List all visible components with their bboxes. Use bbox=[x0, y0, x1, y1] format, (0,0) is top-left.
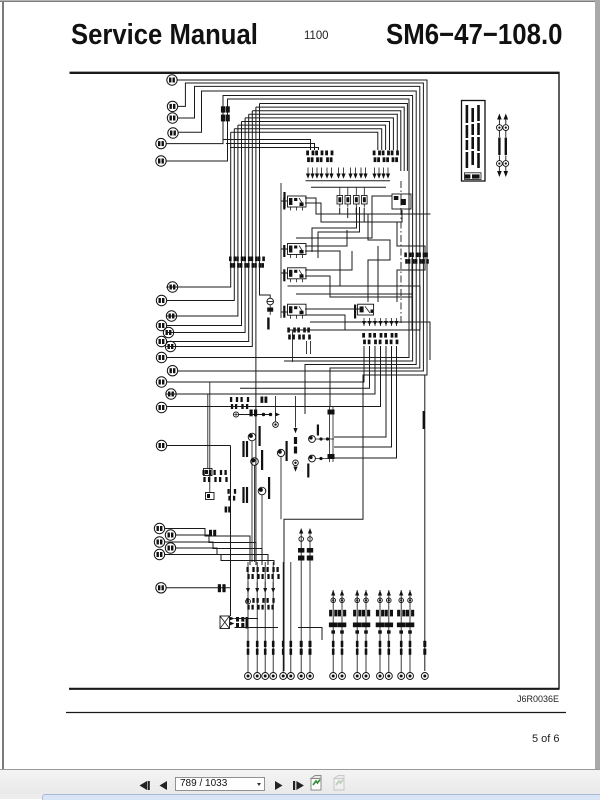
fuse F4 bbox=[362, 187, 368, 207]
relay block internal wire 9 bbox=[281, 248, 288, 250]
wire to turned light box 1 bbox=[207, 394, 209, 469]
junction dot 1 bbox=[262, 413, 265, 416]
wire ref column mid bbox=[295, 396, 297, 428]
relay block internal wire 16 bbox=[305, 308, 362, 310]
wire left-bundle 5 upper bbox=[245, 118, 393, 150]
relay main relay bbox=[288, 304, 307, 319]
terminal group 5 bbox=[353, 590, 370, 680]
wire left-bundle 7 upper bbox=[252, 111, 400, 171]
small label pair near junction bbox=[261, 397, 268, 403]
terminal group 4 bbox=[329, 590, 346, 680]
inline label on c20 wire bbox=[209, 530, 216, 537]
connector circle c16 bbox=[156, 377, 166, 387]
wire left-bundle 9 lower bbox=[260, 104, 271, 299]
component pair vertical bbox=[328, 407, 335, 462]
wire to seatbelt symbol bbox=[275, 396, 277, 422]
connector circle c10 bbox=[156, 320, 166, 330]
bus wire under diode row bbox=[306, 180, 391, 182]
bottom-left contact symbols bbox=[246, 582, 275, 593]
relay block internal wire 14 bbox=[305, 258, 412, 297]
wire 4WD out 3 bbox=[166, 346, 375, 394]
connector labels above diode row (right) bbox=[373, 151, 399, 163]
reference symbol column A bbox=[497, 114, 503, 178]
wire labels on left bundle bbox=[229, 257, 265, 268]
wire c20 lower bbox=[164, 529, 250, 566]
wire c25 branch bbox=[166, 587, 231, 589]
schematic frame right border bbox=[558, 72, 560, 689]
wire left-bundle 1 lower bbox=[166, 132, 230, 287]
wire lamp1 down bbox=[251, 441, 253, 562]
connector circle c14 bbox=[156, 352, 166, 362]
relay block internal wire 21 bbox=[288, 286, 421, 318]
junction dot backup 1 bbox=[319, 437, 322, 440]
junction dot 2 bbox=[269, 413, 272, 416]
connector circle c25 bbox=[156, 583, 166, 593]
wire junction vertical x231 bbox=[230, 446, 232, 617]
connector circle c24 bbox=[154, 549, 164, 559]
wire left-bundle 4 lower bbox=[166, 122, 241, 326]
wire h to diode col 3 bbox=[230, 148, 319, 151]
header title left bbox=[71, 19, 258, 52]
connector labels above diode row (left) bbox=[306, 151, 333, 163]
connector circle c15 bbox=[167, 366, 177, 376]
wire long vertical to terminal bbox=[424, 375, 426, 671]
label oil pressure bbox=[268, 477, 270, 499]
wire c4 top bbox=[178, 91, 416, 414]
connector circle c2 bbox=[167, 101, 177, 111]
legend text column 2 bbox=[471, 108, 474, 165]
toolbar button last page bbox=[293, 781, 304, 790]
junction dot backup 3 bbox=[319, 457, 322, 460]
relay horn relay bbox=[288, 196, 307, 211]
lamp oil pressure bbox=[258, 487, 266, 495]
lamp right backup light bbox=[309, 455, 316, 462]
ref mid label 1 bbox=[294, 437, 297, 444]
drawing plate code bbox=[505, 694, 559, 704]
connector circle c19 bbox=[156, 440, 166, 450]
connector circle c9 bbox=[166, 311, 176, 321]
lamp rail level gauge bbox=[277, 449, 284, 456]
wire labels on right bundle bbox=[404, 253, 429, 264]
bus wire bottom mid bbox=[298, 628, 322, 641]
relay block internal wire 8 bbox=[296, 196, 392, 238]
relay block internal wire 4 bbox=[339, 208, 341, 214]
diode row D1-D16 bbox=[306, 168, 390, 179]
toolbar icon previous view bbox=[311, 776, 321, 791]
wire c1 top bbox=[177, 80, 427, 671]
connector dot on group1 wire bbox=[246, 599, 251, 604]
arrow out of X box 2 bbox=[230, 622, 234, 626]
connector circle c23 bbox=[165, 543, 175, 553]
terminal circle right bbox=[421, 673, 428, 680]
relay block internal wire 6 bbox=[355, 208, 357, 214]
legend text column 3 bbox=[477, 105, 480, 168]
junction circle with cross bbox=[233, 412, 238, 417]
wire h to diode col 2 bbox=[226, 144, 315, 151]
wire labels col 243 low bbox=[242, 487, 248, 503]
relay 4WD box bbox=[358, 304, 374, 315]
wire lamp3 down bbox=[261, 495, 263, 562]
wire left-bundle 8 lower bbox=[255, 107, 257, 560]
connector stack on wire c5/c6 bbox=[221, 106, 230, 121]
wire left-bundle 5 lower bbox=[166, 118, 245, 333]
terminal group 3 bbox=[298, 528, 314, 680]
connector circle c3 bbox=[167, 113, 177, 123]
label left backup light bbox=[317, 425, 319, 436]
wire c21 lower bbox=[175, 535, 256, 565]
wire labels col 243 bbox=[242, 441, 248, 457]
wire relay drop 1 bbox=[292, 330, 294, 362]
relay horn relay label bbox=[283, 198, 285, 210]
page footer rule bbox=[66, 712, 566, 714]
arrow down ref mid bbox=[293, 428, 297, 433]
component cluster mid low bbox=[227, 489, 236, 501]
relay block internal wire 23 bbox=[310, 322, 430, 360]
label thunder hazard bbox=[259, 426, 261, 446]
connector circle c13 bbox=[165, 341, 175, 351]
connector circle c22 bbox=[154, 537, 164, 547]
fuse F1 bbox=[337, 187, 343, 207]
wire lamp2 down bbox=[254, 465, 256, 562]
wire 4WD out 4 bbox=[166, 346, 380, 407]
component cluster left horn bbox=[202, 470, 227, 482]
bus wire bottom left bbox=[235, 627, 279, 629]
connector circle c4 bbox=[168, 128, 178, 138]
symbol ref mid circle bbox=[293, 460, 299, 466]
wire left-bundle 2 upper bbox=[234, 129, 381, 150]
wire c19 branch bbox=[166, 445, 230, 447]
wire relay drop 2 bbox=[306, 341, 308, 354]
wire right backup bbox=[315, 458, 334, 460]
connector circle c8 bbox=[156, 295, 166, 305]
relay block internal wire 10 bbox=[305, 230, 347, 246]
bus wire X box upper bbox=[235, 618, 259, 620]
fuse HAZ label bbox=[267, 318, 269, 330]
relay block internal wire 19 bbox=[377, 246, 379, 302]
relay flasher relay label bbox=[283, 245, 285, 257]
relay accessory relay label bbox=[283, 269, 285, 281]
relay block label A/C CONDENSER RELAY bbox=[283, 192, 285, 208]
label right backup light bbox=[307, 464, 309, 478]
wire junction horizontal bbox=[239, 414, 271, 416]
4WD relay pin contacts bbox=[362, 318, 399, 326]
label rail level gauge bbox=[286, 441, 288, 461]
wire 4WD out 5 bbox=[334, 346, 386, 437]
wire left-bundle 9 upper bbox=[260, 104, 408, 172]
wire c2 top bbox=[177, 83, 423, 371]
toolbar button first page bbox=[140, 781, 150, 790]
relay block internal wire 22 bbox=[288, 294, 413, 330]
wire left backup bbox=[315, 438, 334, 440]
wire to turned light box 2 bbox=[209, 382, 211, 493]
legend code box bbox=[465, 173, 482, 180]
toolbar icon next view (disabled) bbox=[334, 776, 344, 791]
label rear window defog bbox=[236, 617, 244, 628]
wire c5 via connector stack bbox=[166, 96, 413, 362]
symbol seatbelt circle bbox=[273, 422, 279, 428]
relay main relay label bbox=[283, 306, 285, 318]
wire rail lamp down bbox=[280, 457, 282, 520]
inline label x225 upper bbox=[225, 507, 231, 513]
connector circle c17 bbox=[166, 389, 176, 399]
wire c24 lower bbox=[164, 555, 274, 566]
bottom-left lower labels bbox=[246, 598, 274, 610]
connector circle c21 bbox=[165, 530, 175, 540]
relay flasher relay bbox=[288, 244, 307, 259]
connector circle c11 bbox=[163, 327, 173, 337]
relay block internal wire 12 bbox=[281, 272, 288, 274]
bottom-left cluster labels bbox=[246, 567, 279, 579]
terminal group 1 (4 wires) bbox=[245, 562, 277, 680]
relay block internal wire 20 bbox=[397, 222, 425, 302]
wire left-bundle 6 lower bbox=[166, 114, 248, 341]
lamp left backup light bbox=[309, 436, 316, 443]
wire 4WD out 2 bbox=[240, 346, 370, 388]
connector circle c5 bbox=[156, 138, 166, 148]
junction dot backup 2 bbox=[326, 437, 329, 440]
reference symbol column B bbox=[503, 114, 509, 178]
component cluster meter labels bbox=[230, 397, 249, 409]
relay block internal wire 2 bbox=[305, 198, 431, 214]
arrow out of X box 1 bbox=[230, 617, 234, 621]
wire 4WD out 7 bbox=[334, 346, 397, 458]
relay block left border bbox=[280, 183, 282, 318]
relay block internal wire 13 bbox=[305, 251, 352, 270]
terminal group 2 (2 wires) bbox=[280, 562, 295, 680]
relay accessory relay bbox=[288, 268, 307, 283]
schematic frame bottom rule bbox=[69, 688, 560, 690]
terminal group 7 bbox=[397, 590, 414, 680]
component box K5 bbox=[392, 194, 411, 209]
wire left-bundle 7 lower bbox=[166, 111, 252, 347]
arrow down ref mid 2 bbox=[293, 467, 297, 472]
wire left-bundle 3 upper bbox=[238, 125, 386, 150]
turned light box symbol bbox=[204, 469, 213, 476]
wire c23 lower bbox=[175, 548, 268, 565]
wire label 1234W upper bbox=[423, 411, 425, 429]
terminal group 6 bbox=[376, 590, 393, 680]
connector circle c12 bbox=[156, 336, 166, 346]
relay 4WD label bbox=[354, 305, 356, 319]
box with X rear window bbox=[220, 616, 230, 629]
connector circle c1 bbox=[167, 75, 177, 85]
pdf viewer toolbar bbox=[0, 769, 600, 795]
wire relay drop 3 bbox=[310, 341, 312, 354]
wire 4WD out 6 bbox=[334, 346, 392, 447]
label thermostat bbox=[246, 617, 249, 629]
schematic frame top rule bbox=[70, 72, 560, 74]
wire h to diode col 1 bbox=[223, 140, 311, 151]
wire c3 top bbox=[177, 86, 419, 407]
wire c25 inline label bbox=[218, 584, 226, 592]
connector circle c18 bbox=[156, 402, 166, 412]
lamp turn signal bbox=[251, 458, 259, 466]
fuse F2 bbox=[345, 187, 351, 207]
relay block internal wire 15 bbox=[281, 311, 288, 313]
header page number center bbox=[304, 28, 329, 42]
legend text column 1 bbox=[466, 105, 469, 168]
relay block internal wire 25 bbox=[318, 207, 360, 258]
relay block internal wire 1 bbox=[281, 200, 288, 202]
header document number right bbox=[386, 19, 563, 52]
toolbar button next page bbox=[275, 781, 283, 790]
wire left-bundle 4 upper bbox=[242, 122, 390, 151]
fuse HAZ symbol bbox=[267, 298, 274, 315]
connector circle c6 bbox=[156, 156, 166, 166]
arrow right at junction bbox=[275, 412, 280, 416]
relay block internal wire 17 bbox=[305, 297, 420, 330]
page number footer bbox=[532, 733, 560, 745]
4WD relay pin labels bbox=[362, 333, 398, 344]
wire left-bundle 1 upper bbox=[231, 132, 378, 150]
relay block internal wire 18 bbox=[368, 214, 390, 302]
turned light box symbol 2 bbox=[206, 493, 215, 500]
fuse F3 bbox=[354, 187, 360, 207]
ref mid label 2 bbox=[294, 447, 297, 454]
toolbar page entry box bbox=[175, 777, 265, 791]
connector circle c7 bbox=[167, 282, 177, 292]
relay block internal wire 3 bbox=[305, 203, 402, 222]
wire label 1234W lower bbox=[423, 641, 426, 655]
wire left-bundle 8 upper bbox=[256, 107, 404, 171]
wire 4WD out 1 bbox=[166, 346, 364, 382]
wire c6 via connector stack bbox=[166, 99, 409, 358]
label turn signal bbox=[261, 450, 263, 470]
relay block internal wire 7 bbox=[363, 208, 365, 222]
relay block right border bbox=[400, 181, 402, 325]
relay block internal wire 24 bbox=[312, 207, 357, 252]
legend box border bbox=[462, 101, 486, 182]
bus wire 2 under diode row bbox=[311, 186, 386, 188]
wire left-bundle 2 lower bbox=[166, 129, 234, 301]
wire left-bundle 6 upper bbox=[249, 114, 398, 152]
relay main pin labels bbox=[287, 328, 311, 340]
wire left-bundle 3 lower bbox=[166, 125, 238, 316]
relay block internal wire 11 bbox=[305, 251, 340, 286]
wire junction labels bbox=[250, 410, 258, 417]
relay block internal wire 5 bbox=[347, 208, 349, 218]
toolbar button previous page bbox=[160, 781, 168, 790]
wire c22 lower bbox=[164, 542, 262, 565]
connector circle c20 bbox=[154, 523, 164, 533]
lamp thunder hazard bbox=[248, 433, 256, 441]
